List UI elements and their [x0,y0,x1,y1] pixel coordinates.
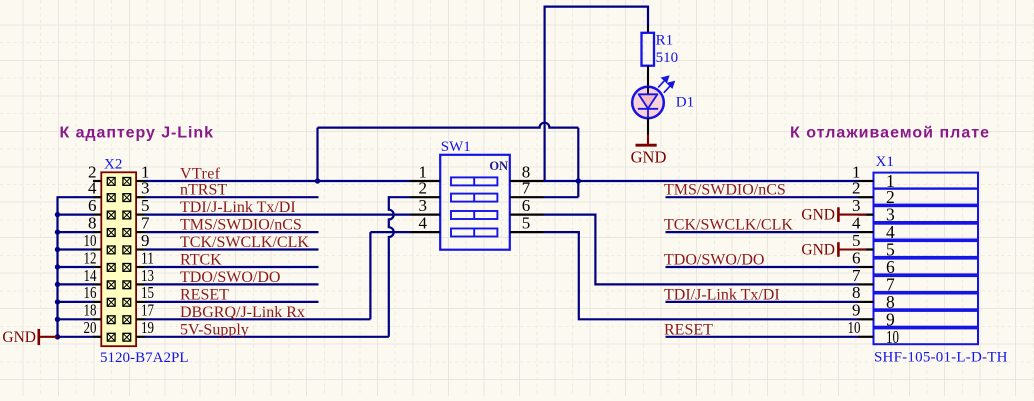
X2 right pin stubs (pins 1..19) [136,180,145,182]
svg-text:9: 9 [141,231,150,250]
wire/net label TCK/SWCLK/CLK [146,248,319,250]
svg-text:К адаптеру J-Link: К адаптеру J-Link [60,125,214,142]
wire/net label TDO/SWO/DO to X1 [666,266,859,268]
wire: DBGRQ over to SW1 pin 4 [370,231,410,233]
svg-text:TCK/SWCLK/CLK: TCK/SWCLK/CLK [664,217,793,234]
svg-text:20: 20 [84,318,97,337]
svg-text:TMS/SWDIO/nCS: TMS/SWDIO/nCS [664,182,786,199]
junction at pin 8 row [55,229,60,234]
power port GND at X1 pin 5 [866,248,874,250]
switch SW1 body [440,155,510,250]
svg-text:RESET: RESET [664,321,713,338]
wire/net label TMS/SWDIO/nCS [146,231,319,233]
svg-text:9: 9 [852,301,861,320]
wire: SW1 pin8 row to X1 pin 1 [544,180,859,182]
svg-text:6: 6 [88,196,97,215]
svg-text:TDI/J-Link Tx/DI: TDI/J-Link Tx/DI [664,286,780,303]
wire: SW1 pin7 stub extension [544,196,579,198]
X2 left pin stubs (pins 2..20) [93,180,101,182]
wire: top feed from R1 to SW1 pin 8 [545,7,648,181]
junction at pin 16 row [55,299,60,304]
svg-text:510: 510 [656,50,679,66]
svg-text:13: 13 [141,266,154,285]
wire/net label RESET to X1 [666,336,859,338]
junction at pin 6 row [55,212,60,217]
svg-text:18: 18 [84,301,97,320]
junction at pin 20 row [55,334,60,339]
wire/net label TCK/SWCLK/CLK to X1 [666,231,859,233]
svg-text:TDI/J-Link Tx/DI: TDI/J-Link Tx/DI [180,199,296,216]
svg-text:5: 5 [852,231,861,250]
svg-text:14: 14 [84,266,97,285]
svg-text:11: 11 [141,248,154,267]
svg-text:ON: ON [489,159,508,173]
svg-text:TMS/SWDIO/nCS: TMS/SWDIO/nCS [180,217,302,234]
svg-text:10: 10 [848,318,861,337]
SW1 left pin stubs 1-4 [411,180,441,182]
wire/net label 5V-Supply [146,336,389,338]
svg-text:TDO/SWO/DO: TDO/SWO/DO [664,252,764,269]
junction with X1 pin1 wire [576,178,581,183]
connector X2 body [101,172,136,346]
svg-text:DBGRQ/J-Link Rx: DBGRQ/J-Link Rx [180,304,305,321]
svg-text:R1: R1 [656,32,674,48]
wire: SW1 pin6 to X1 pin 7 [544,215,859,285]
LED arrows [658,76,674,92]
svg-text:16: 16 [84,283,97,302]
svg-text:4: 4 [88,179,97,198]
svg-text:6: 6 [522,196,531,215]
SW1 right pin stubs 8,7,6,5 [510,180,544,182]
svg-text:6: 6 [852,248,861,267]
svg-text:TCK/SWCLK/CLK: TCK/SWCLK/CLK [180,234,309,251]
svg-text:8: 8 [852,283,861,302]
wire: VTref branch horizontal with hop over R1 feed [318,123,579,128]
svg-text:5: 5 [522,213,531,232]
svg-text:SW1: SW1 [441,139,471,155]
svg-text:GND: GND [801,207,835,224]
svg-text:GND: GND [801,242,835,259]
svg-text:RTCK: RTCK [180,252,222,269]
junction at pin 10 row [55,247,60,252]
SW1 switch elements [451,177,497,185]
svg-text:VTref: VTref [180,166,221,183]
svg-text:15: 15 [141,283,154,302]
svg-text:4: 4 [419,213,428,232]
resistor R1 [647,26,649,33]
svg-text:3: 3 [419,196,428,215]
D1 bottom pin [647,118,649,135]
svg-text:5V-Supply: 5V-Supply [180,321,249,338]
svg-text:X1: X1 [876,154,894,170]
wire/net label DBGRQ/J-Link Rx [146,318,371,320]
wire/net label TDI/J-Link Tx/DI [146,214,411,216]
svg-text:10: 10 [886,327,899,347]
power port GND at X1 pin 3 [866,214,874,216]
X2 pin squares [107,178,115,186]
wire: VTref branch vertical [316,128,318,181]
svg-text:К отлаживаемой плате: К отлаживаемой плате [790,125,989,142]
junction VTref branch [315,178,320,183]
power port GND (left) [40,336,58,338]
svg-text:7: 7 [522,179,531,198]
svg-text:12: 12 [84,248,97,267]
wire: left GND bus vertical [56,197,58,337]
connector X1 body (10 stacked pin rectangles) [874,173,979,189]
svg-text:5: 5 [141,196,150,215]
R1 bottom pin [647,66,649,87]
power port GND (under D1) [647,135,649,145]
junction at pin 18 row [55,317,60,322]
svg-text:3: 3 [852,196,861,215]
wire: 5V-Supply vertical to SW1 pin 2, hops over TDI and TMS wires [389,197,411,337]
wire: SW1 pin5 to X1 pin 9 [544,232,859,319]
svg-text:17: 17 [141,301,154,320]
svg-text:GND: GND [631,147,667,166]
wire/net label TDI/J-Link Tx/DI to X1 [666,301,859,303]
svg-text:RESET: RESET [180,286,229,303]
wire/net label TDO/SWO/DO [146,283,319,285]
wire/net label RESET [146,301,319,303]
svg-text:7: 7 [141,213,150,232]
svg-text:GND: GND [2,329,36,346]
wires: X2 even pins to GND bus [57,196,94,198]
svg-text:D1: D1 [676,94,694,110]
junction at pin 14 row [55,282,60,287]
X1 pin stubs [858,180,874,182]
LED D1 [632,87,664,119]
svg-text:X2: X2 [104,157,122,173]
svg-text:2: 2 [419,179,428,198]
junction at pin 12 row [55,264,60,269]
wire: DBGRQ vertical up [369,232,371,319]
svg-text:8: 8 [88,213,97,232]
wire/net label TMS/SWDIO/nCS to X1 [666,196,859,198]
svg-text:19: 19 [141,318,154,337]
wire/net label VTref [146,180,411,182]
svg-text:SHF-105-01-L-D-TH: SHF-105-01-L-D-TH [874,350,1008,366]
svg-text:2: 2 [852,179,861,198]
svg-text:TDO/SWO/DO: TDO/SWO/DO [180,269,280,286]
svg-text:10: 10 [84,231,97,250]
svg-text:5120-B7A2PL: 5120-B7A2PL [100,350,189,366]
wire: branch down to SW1 pin 7 [577,128,579,198]
svg-text:7: 7 [852,266,861,285]
wire/net label nTRST [146,196,319,198]
svg-text:nTRST: nTRST [180,182,227,199]
wire/net label RTCK [146,266,319,268]
svg-text:4: 4 [852,213,861,232]
